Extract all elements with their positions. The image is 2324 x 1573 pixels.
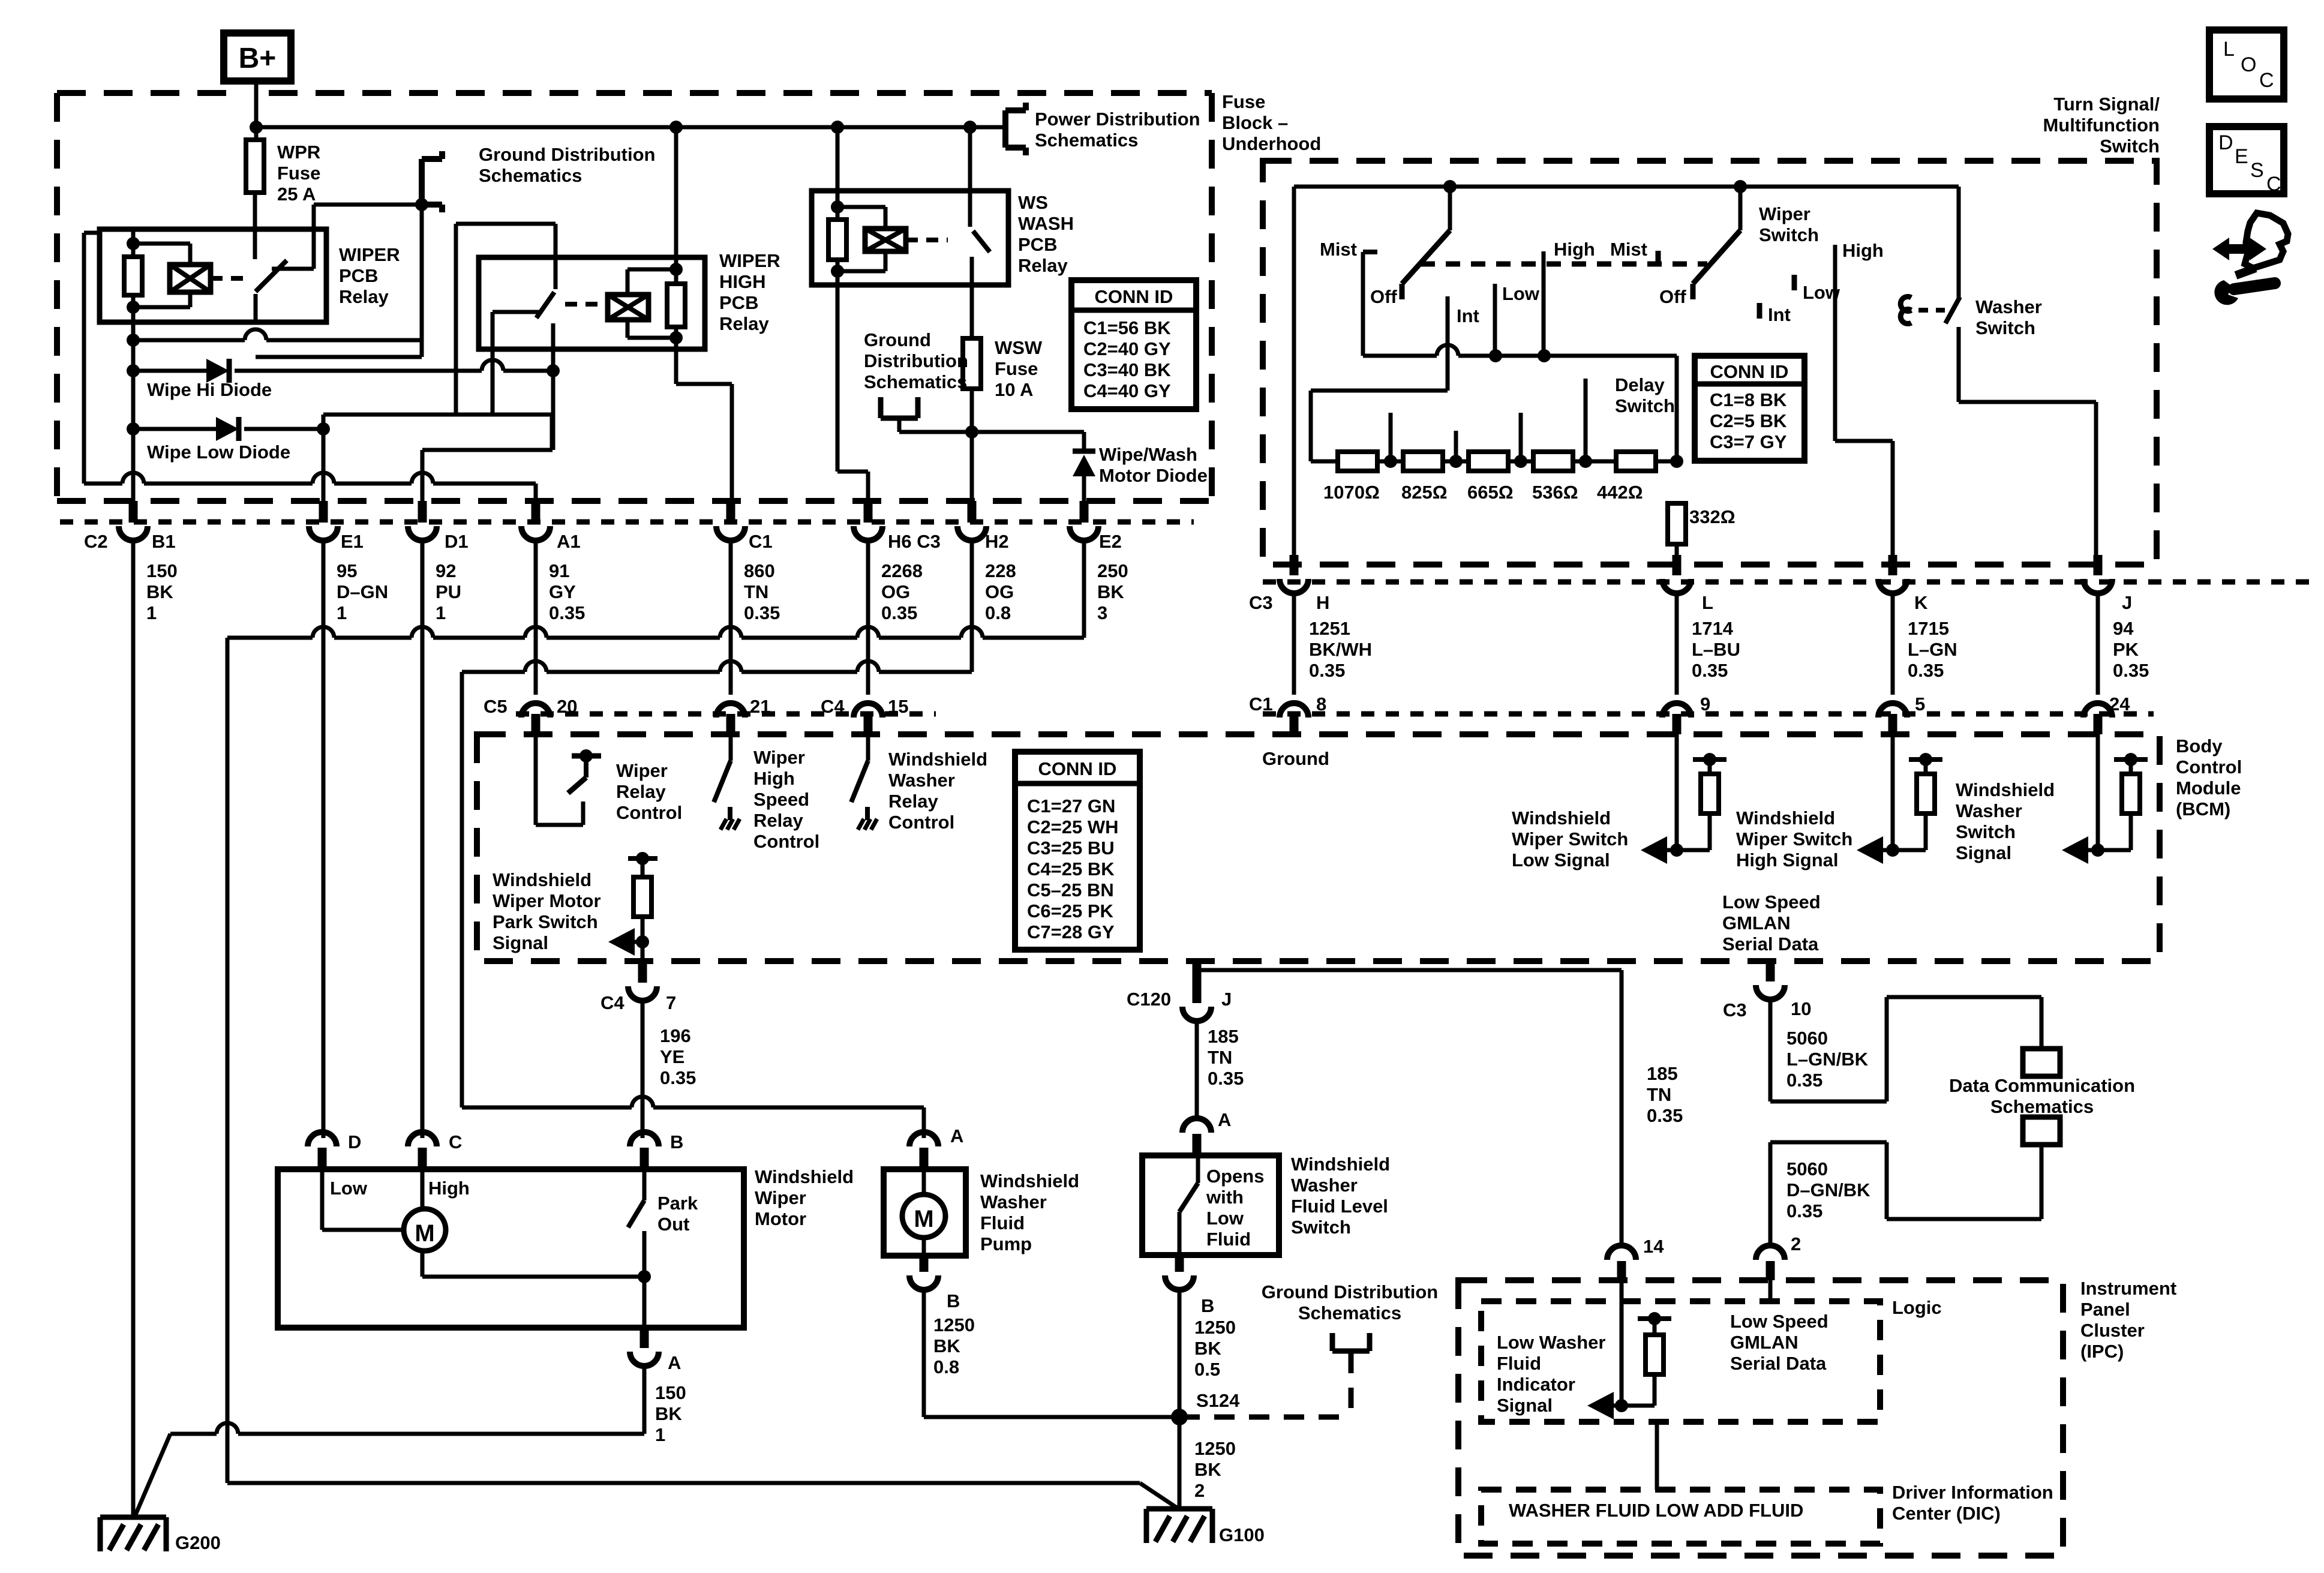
- svg-text:D–GN/BK: D–GN/BK: [1786, 1179, 1870, 1200]
- motor M2 Windshield Washer Fluid Pump: [884, 1169, 966, 1256]
- svg-text:10: 10: [1791, 998, 1811, 1019]
- connector pin 9: [1673, 714, 1682, 734]
- svg-text:665Ω: 665Ω: [1467, 482, 1514, 503]
- svg-text:Control: Control: [2176, 757, 2242, 778]
- svg-text:Low Speed: Low Speed: [1730, 1311, 1828, 1332]
- svg-text:C7=28 GY: C7=28 GY: [1027, 921, 1115, 942]
- svg-text:150: 150: [655, 1382, 686, 1403]
- svg-text:B: B: [670, 1131, 683, 1152]
- svg-text:Relay: Relay: [339, 286, 389, 307]
- svg-text:25 A: 25 A: [277, 184, 316, 205]
- connector pin E1: [319, 501, 328, 523]
- fuse WPR 25A: [246, 140, 264, 193]
- svg-text:BK: BK: [1097, 581, 1124, 602]
- wire E2 jog to left column: [227, 636, 313, 640]
- connector C4-7: [638, 961, 647, 983]
- svg-text:Speed: Speed: [753, 789, 809, 810]
- svg-text:A1: A1: [557, 531, 581, 552]
- svg-text:Power Distribution: Power Distribution: [1035, 109, 1200, 130]
- splice S124: [1171, 1409, 1188, 1425]
- B+ battery symbol: [224, 33, 291, 81]
- contact Int right: [1757, 303, 1762, 319]
- svg-text:Out: Out: [657, 1214, 689, 1235]
- svg-text:Ground: Ground: [864, 329, 931, 350]
- svg-text:Wiper Switch: Wiper Switch: [1736, 828, 1852, 849]
- svg-text:High: High: [1842, 240, 1884, 261]
- svg-text:Park Switch: Park Switch: [493, 911, 598, 932]
- connector pin H2: [968, 501, 977, 523]
- svg-text:TN: TN: [744, 581, 768, 602]
- svg-text:Control: Control: [753, 831, 819, 852]
- svg-text:C1=27 GN: C1=27 GN: [1027, 795, 1115, 816]
- svg-text:Wiper: Wiper: [753, 747, 805, 768]
- data communication stub box bottom: [2023, 1117, 2060, 1145]
- svg-text:Fluid: Fluid: [1497, 1353, 1541, 1374]
- connector B wiper motor: [630, 1132, 659, 1146]
- svg-text:OG: OG: [985, 581, 1014, 602]
- wire high relay contact2 down to D1 column: [551, 323, 556, 450]
- svg-text:BK: BK: [655, 1403, 682, 1424]
- svg-text:PK: PK: [2113, 639, 2139, 660]
- wiper relay dashed link: [211, 276, 247, 281]
- svg-text:Windshield: Windshield: [493, 869, 591, 890]
- svg-text:S: S: [2250, 159, 2264, 182]
- svg-text:Windshield: Windshield: [980, 1170, 1079, 1191]
- svg-text:Opens: Opens: [1206, 1166, 1264, 1187]
- wire E1 drop from low diode node: [322, 429, 326, 502]
- svg-text:H6 C3: H6 C3: [888, 531, 941, 552]
- connector row C5/C4 dotted: [516, 712, 936, 717]
- svg-text:Ground: Ground: [1262, 748, 1329, 769]
- svg-text:C2=25 WH: C2=25 WH: [1027, 816, 1118, 837]
- wire 196 YE to motor B: [641, 1001, 645, 1138]
- svg-text:WIPER: WIPER: [719, 250, 780, 271]
- wire wash ground row: [899, 430, 1084, 434]
- svg-text:Module: Module: [2176, 778, 2241, 798]
- svg-text:G100: G100: [1219, 1524, 1265, 1545]
- svg-text:20: 20: [557, 696, 577, 717]
- relay K3 WS WASH PCB Relay box: [812, 191, 1008, 285]
- svg-text:442Ω: 442Ω: [1597, 482, 1643, 503]
- connector B fluid level switch: [1175, 1255, 1184, 1272]
- left outer wire to relay: [82, 233, 86, 484]
- svg-text:7: 7: [666, 992, 676, 1013]
- wiper high speed relay control switch: [729, 734, 733, 761]
- svg-text:1: 1: [655, 1424, 665, 1445]
- wire node down and over to B1 column: [420, 205, 424, 357]
- svg-text:Wiper Switch: Wiper Switch: [1512, 828, 1628, 849]
- svg-text:HIGH: HIGH: [719, 271, 766, 292]
- wiper switch feed bus: [1294, 185, 1959, 189]
- svg-text:C: C: [2259, 69, 2274, 92]
- rail to delay switch: [1363, 354, 1437, 358]
- wiper relay switch: [253, 231, 257, 259]
- wire B1 column full drop: [131, 541, 136, 1517]
- wire high relay coil to C1 column: [674, 338, 678, 384]
- svg-text:196: 196: [660, 1025, 691, 1046]
- svg-text:Block –: Block –: [1222, 112, 1288, 133]
- svg-text:Pump: Pump: [980, 1233, 1032, 1254]
- ws wash relay switch: [968, 127, 972, 227]
- svg-text:Washer: Washer: [1291, 1175, 1358, 1196]
- connector pin K: [1888, 555, 1897, 575]
- diode Wipe/Wash Motor Diode: [1082, 432, 1086, 452]
- svg-text:Washer: Washer: [1956, 800, 2022, 821]
- logic dashed box: [1481, 1301, 1880, 1422]
- svg-text:14: 14: [1643, 1236, 1664, 1257]
- svg-text:Relay: Relay: [1018, 255, 1068, 276]
- svg-text:0.35: 0.35: [1692, 660, 1728, 681]
- svg-text:L: L: [2223, 38, 2235, 61]
- svg-text:Underhood: Underhood: [1222, 133, 1321, 154]
- BCM dashed box: [477, 734, 2160, 961]
- svg-text:B1: B1: [152, 531, 176, 552]
- park out switch: [642, 1169, 647, 1200]
- svg-text:GMLAN: GMLAN: [1730, 1332, 1798, 1353]
- wire fuse to wiper relay: [253, 193, 257, 231]
- bracket Ground Distribution Schematics (upper): [419, 159, 425, 205]
- svg-text:Fuse: Fuse: [277, 163, 320, 184]
- wire logic to DIC: [1655, 1422, 1659, 1490]
- contact Low right: [1792, 275, 1797, 290]
- wire pump to S124: [922, 1290, 926, 1417]
- svg-text:825Ω: 825Ω: [1401, 482, 1448, 503]
- svg-text:0.35: 0.35: [1908, 660, 1944, 681]
- DIC dashed box: [1481, 1490, 1880, 1544]
- svg-text:Turn Signal/: Turn Signal/: [2053, 94, 2160, 115]
- svg-text:0.35: 0.35: [1208, 1068, 1244, 1089]
- svg-text:Signal: Signal: [1956, 842, 2011, 863]
- wiper relay control switch: [534, 734, 538, 825]
- svg-text:PCB: PCB: [339, 265, 378, 286]
- B+ feed bus: [256, 125, 1005, 130]
- svg-text:Off: Off: [1659, 286, 1686, 307]
- svg-text:Control: Control: [888, 812, 954, 833]
- svg-text:Logic: Logic: [1892, 1297, 1942, 1318]
- svg-text:Mist: Mist: [1610, 239, 1647, 260]
- svg-text:C5–25 BN: C5–25 BN: [1027, 879, 1114, 900]
- svg-text:0.35: 0.35: [549, 602, 585, 623]
- svg-text:Relay: Relay: [888, 791, 938, 812]
- svg-text:BK/WH: BK/WH: [1309, 639, 1372, 660]
- svg-text:D: D: [348, 1131, 361, 1152]
- connector pin J: [2094, 555, 2103, 575]
- park switch signal branch: [628, 856, 657, 861]
- svg-text:2: 2: [1791, 1233, 1801, 1254]
- svg-text:9: 9: [1700, 694, 1710, 715]
- svg-text:BK: BK: [146, 581, 173, 602]
- svg-text:Switch: Switch: [2100, 136, 2160, 157]
- svg-text:1714: 1714: [1692, 618, 1734, 639]
- svg-text:C6=25 PK: C6=25 PK: [1027, 900, 1114, 921]
- svg-text:10 A: 10 A: [995, 379, 1033, 400]
- svg-text:D–GN: D–GN: [337, 581, 388, 602]
- connector pin H: [1290, 555, 1299, 575]
- svg-text:Fluid Level: Fluid Level: [1291, 1196, 1388, 1217]
- connector A wiper motor: [640, 1328, 649, 1348]
- svg-text:B+: B+: [239, 43, 277, 74]
- svg-text:Instrument: Instrument: [2080, 1278, 2176, 1299]
- svg-text:5060: 5060: [1786, 1028, 1828, 1049]
- svg-text:BK: BK: [933, 1335, 960, 1356]
- svg-text:M: M: [415, 1220, 434, 1247]
- svg-text:Switch: Switch: [1956, 821, 2016, 842]
- svg-text:Motor: Motor: [755, 1208, 806, 1229]
- svg-text:C4=25 BK: C4=25 BK: [1027, 858, 1115, 879]
- bracket Power Distribution Schematics: [1002, 110, 1008, 148]
- svg-text:1715: 1715: [1908, 618, 1949, 639]
- relay K1 WIPER PCB Relay box: [100, 229, 326, 322]
- svg-text:Wiper: Wiper: [755, 1187, 806, 1208]
- svg-text:Ground Distribution: Ground Distribution: [479, 144, 655, 165]
- svg-text:24: 24: [2109, 694, 2130, 715]
- wire 2 into logic: [1768, 1280, 1773, 1301]
- svg-text:0.35: 0.35: [881, 602, 917, 623]
- wire fluid switch to G100: [1178, 1290, 1182, 1509]
- wire H2 jog to pump column: [462, 670, 525, 674]
- svg-text:Multifunction: Multifunction: [2043, 115, 2160, 136]
- svg-text:Schematics: Schematics: [1035, 130, 1138, 151]
- svg-text:J: J: [1221, 989, 1232, 1010]
- wire to B1 ground column with hop: [133, 338, 245, 343]
- wire relay common to ground distribution node: [314, 203, 422, 207]
- svg-text:1250: 1250: [933, 1314, 975, 1335]
- connector A washer pump: [909, 1132, 938, 1146]
- svg-text:Relay: Relay: [616, 781, 666, 802]
- wiper high relay coil: [674, 127, 678, 269]
- svg-text:Schematics: Schematics: [1298, 1302, 1401, 1323]
- svg-text:0.35: 0.35: [1786, 1070, 1822, 1091]
- ws wash relay dashed link: [906, 238, 948, 242]
- svg-text:High Signal: High Signal: [1736, 849, 1839, 870]
- svg-text:94: 94: [2113, 618, 2134, 639]
- connector pin D1: [418, 501, 427, 523]
- wires turn signal to BCM: [1292, 593, 1296, 695]
- svg-text:Windshield: Windshield: [1956, 779, 2055, 800]
- svg-text:E2: E2: [1099, 531, 1122, 552]
- svg-text:0.35: 0.35: [1309, 660, 1345, 681]
- motor symbol: [320, 1169, 325, 1230]
- svg-text:WPR: WPR: [277, 142, 320, 163]
- ground G200: [100, 1515, 166, 1520]
- svg-text:Windshield: Windshield: [755, 1166, 854, 1187]
- wire E1 column to motor D: [322, 541, 326, 1138]
- svg-text:Body: Body: [2176, 736, 2223, 757]
- connector row C1 dotted (BCM top): [1263, 712, 2154, 717]
- svg-text:0.35: 0.35: [1786, 1200, 1822, 1221]
- svg-text:E1: E1: [341, 531, 364, 552]
- Wipe Hi Diode row: [127, 364, 140, 377]
- svg-text:228: 228: [985, 560, 1016, 581]
- svg-text:C1: C1: [1249, 694, 1273, 715]
- wiper switch left blade: [1448, 187, 1452, 230]
- LOC box: [2209, 30, 2284, 99]
- svg-text:5: 5: [1915, 694, 1925, 715]
- dashed wire to ground distribution: [1179, 1415, 1351, 1420]
- data communication stub box top: [2023, 1049, 2060, 1076]
- svg-text:Relay: Relay: [753, 810, 803, 831]
- svg-text:H2: H2: [985, 531, 1009, 552]
- svg-text:Windshield: Windshield: [1291, 1154, 1390, 1175]
- connector pin 21: [726, 714, 735, 734]
- svg-text:WS: WS: [1018, 192, 1048, 213]
- svg-text:Signal: Signal: [493, 932, 548, 953]
- svg-text:L–BU: L–BU: [1692, 639, 1740, 660]
- svg-text:S124: S124: [1196, 1390, 1240, 1411]
- connector pin 5: [1888, 714, 1897, 734]
- connector D wiper motor: [308, 1132, 337, 1146]
- ws wash relay coil: [836, 127, 840, 220]
- svg-text:Schematics: Schematics: [479, 165, 582, 186]
- svg-text:C: C: [2266, 173, 2281, 196]
- svg-text:G200: G200: [175, 1532, 221, 1553]
- connector pin 2 IPC: [1756, 1245, 1785, 1260]
- svg-text:Low: Low: [1502, 283, 1540, 304]
- svg-text:B: B: [1201, 1295, 1214, 1316]
- svg-text:C1=56 BK: C1=56 BK: [1083, 317, 1171, 338]
- connector B washer pump: [920, 1256, 929, 1272]
- svg-text:C3: C3: [1723, 999, 1747, 1020]
- svg-text:High: High: [428, 1178, 470, 1199]
- svg-text:Wipe/Wash: Wipe/Wash: [1099, 444, 1197, 465]
- svg-text:Low Signal: Low Signal: [1512, 849, 1610, 870]
- svg-text:1250: 1250: [1194, 1438, 1236, 1459]
- svg-text:Wiper Motor: Wiper Motor: [493, 890, 601, 911]
- svg-text:185: 185: [1208, 1026, 1239, 1047]
- svg-text:Ground Distribution: Ground Distribution: [1262, 1281, 1438, 1302]
- svg-text:185: 185: [1647, 1063, 1678, 1084]
- BCM input signal branches: [1675, 734, 1679, 850]
- svg-text:Motor Diode: Motor Diode: [1099, 465, 1208, 486]
- svg-text:BK: BK: [1194, 1459, 1221, 1480]
- low washer fluid indicator branch: [1620, 1280, 1624, 1406]
- wire D1 column to motor C: [421, 541, 425, 1138]
- svg-text:Data Communication: Data Communication: [1949, 1075, 2135, 1096]
- svg-text:WIPER: WIPER: [339, 244, 400, 265]
- delay switch resistor ladder: [1311, 389, 1448, 393]
- svg-text:D: D: [2218, 131, 2233, 154]
- svg-text:C: C: [449, 1131, 462, 1152]
- svg-text:1250: 1250: [1194, 1317, 1236, 1338]
- svg-text:1: 1: [337, 602, 347, 623]
- washer switch signal branch: [2096, 734, 2100, 850]
- svg-text:Mist: Mist: [1320, 239, 1357, 260]
- connector C120 J: [1193, 960, 1202, 1003]
- svg-text:Fluid: Fluid: [980, 1212, 1025, 1233]
- delay switch tap stubs: [1389, 413, 1393, 461]
- connector pin C5-20: [532, 714, 541, 734]
- svg-text:Switch: Switch: [1975, 317, 2035, 338]
- svg-text:H: H: [1316, 592, 1329, 613]
- svg-text:1: 1: [436, 602, 446, 623]
- svg-text:Schematics: Schematics: [864, 371, 967, 392]
- wire B1 column upper: [131, 307, 136, 502]
- svg-text:C4=40 GY: C4=40 GY: [1083, 380, 1171, 401]
- icon arrow and wrench: [2212, 238, 2266, 260]
- wire motor ground run: [170, 1432, 217, 1436]
- svg-text:Washer: Washer: [980, 1191, 1047, 1212]
- svg-text:M: M: [914, 1206, 933, 1232]
- svg-text:C4: C4: [821, 696, 845, 717]
- connector A fluid level switch: [1182, 1118, 1211, 1133]
- svg-text:E: E: [2235, 145, 2248, 168]
- wire J to fluid level switch: [1195, 1021, 1199, 1117]
- svg-text:0.35: 0.35: [660, 1067, 696, 1088]
- svg-text:Off: Off: [1370, 286, 1397, 307]
- wire E2 ground row: [84, 482, 122, 486]
- resistor 332 ohm: [1668, 503, 1686, 544]
- svg-text:Switch: Switch: [1291, 1217, 1351, 1238]
- connector pin 14 IPC: [1607, 1245, 1636, 1260]
- svg-text:A: A: [1218, 1109, 1231, 1130]
- washer switch: [1957, 187, 1961, 298]
- svg-text:WSW: WSW: [995, 337, 1043, 358]
- svg-text:Fuse: Fuse: [995, 358, 1038, 379]
- svg-text:Fuse: Fuse: [1222, 91, 1265, 112]
- svg-text:(IPC): (IPC): [2080, 1341, 2124, 1362]
- table CONN ID fuse block: [1071, 280, 1196, 409]
- svg-text:C120: C120: [1127, 989, 1171, 1010]
- svg-text:0.8: 0.8: [933, 1356, 959, 1377]
- DESC box: [2209, 127, 2284, 194]
- svg-text:Switch: Switch: [1615, 395, 1675, 416]
- connector pin 24: [2094, 714, 2103, 734]
- connector C wiper motor: [408, 1132, 437, 1146]
- svg-text:Washer: Washer: [1975, 296, 2042, 317]
- svg-text:Int: Int: [1457, 305, 1479, 326]
- svg-text:Windshield: Windshield: [1736, 807, 1835, 828]
- wiper high relay switch: [554, 224, 558, 289]
- svg-text:High: High: [753, 768, 795, 789]
- svg-text:L–GN: L–GN: [1908, 639, 1957, 660]
- svg-text:Park: Park: [657, 1193, 698, 1214]
- svg-text:Wipe Hi Diode: Wipe Hi Diode: [147, 379, 272, 400]
- svg-text:C4: C4: [600, 992, 624, 1013]
- svg-text:Indicator: Indicator: [1497, 1374, 1575, 1395]
- table CONN ID turn signal: [1695, 356, 1804, 461]
- connector pin E2: [1080, 501, 1089, 523]
- Wipe Low Diode row: [127, 422, 140, 436]
- svg-text:860: 860: [744, 560, 775, 581]
- svg-text:C2=5 BK: C2=5 BK: [1710, 410, 1787, 431]
- svg-text:C3=40 BK: C3=40 BK: [1083, 359, 1171, 380]
- svg-text:TN: TN: [1647, 1084, 1671, 1105]
- svg-text:332Ω: 332Ω: [1689, 506, 1736, 527]
- svg-text:Panel: Panel: [2080, 1299, 2130, 1320]
- svg-text:Windshield: Windshield: [1512, 807, 1611, 828]
- svg-text:Center (DIC): Center (DIC): [1892, 1503, 2001, 1524]
- wiper high relay dashed link: [565, 302, 608, 307]
- motor M1 Windshield Wiper Motor box: [278, 1169, 744, 1328]
- mechanical link dashed: [1421, 262, 1707, 267]
- svg-text:B: B: [947, 1290, 960, 1311]
- svg-text:PU: PU: [436, 581, 461, 602]
- switch Windshield Washer Fluid Level box: [1142, 1155, 1279, 1255]
- wiper switch right blade: [1739, 187, 1743, 230]
- svg-text:1: 1: [146, 602, 157, 623]
- connector row C1/C2 dotted line: [60, 520, 1194, 525]
- svg-text:91: 91: [549, 560, 569, 581]
- wiper relay coil branch: [131, 231, 136, 257]
- svg-text:Wiper: Wiper: [1759, 203, 1810, 224]
- svg-text:C3: C3: [1249, 592, 1273, 613]
- wire B+ to bus/fuse: [254, 81, 259, 140]
- svg-text:Wipe Low Diode: Wipe Low Diode: [147, 442, 290, 463]
- svg-text:L–GN/BK: L–GN/BK: [1786, 1049, 1869, 1070]
- svg-text:BK: BK: [1194, 1338, 1221, 1359]
- connector pin A1: [532, 501, 541, 523]
- svg-text:Serial Data: Serial Data: [1730, 1353, 1827, 1374]
